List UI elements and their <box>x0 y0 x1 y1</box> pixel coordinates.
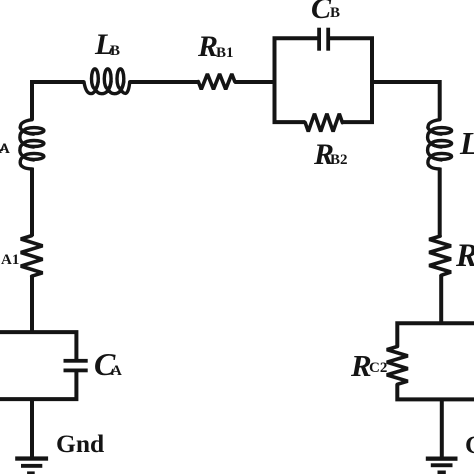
label Gnd (left) <box>56 431 104 457</box>
capacitor C_A <box>64 359 88 372</box>
label R_C1 (cropped) <box>456 240 474 273</box>
wire: parallel RC loop, right half from C_B right plate <box>330 38 372 122</box>
label C_B subscript <box>330 6 340 21</box>
label R_C2 subscript <box>369 361 387 376</box>
resistor R_B1 <box>198 74 235 89</box>
label Gnd (right, cropped) <box>465 433 474 458</box>
label R_A1 subscript (cropped) <box>1 253 19 268</box>
wire: collector box top edge (cropped at right) <box>397 323 474 346</box>
wire: base node top-left corner <box>32 82 84 120</box>
wire: collector box bottom edge (cropped at right) <box>397 384 474 399</box>
label L_C (cropped) <box>460 128 474 160</box>
label L_A (cropped) <box>0 127 5 157</box>
label L_B <box>95 30 113 60</box>
resistor R_A1 <box>21 236 43 277</box>
label R_B1 <box>198 32 218 62</box>
wire: between R_C1 and collector box <box>439 275 443 323</box>
inductor L_A <box>20 120 44 169</box>
wire: L_B to R_B1 <box>129 80 198 84</box>
wire: collector box to ground <box>440 399 444 457</box>
wire: between L_C and R_C1 <box>438 168 442 237</box>
wire: between L_A and R_A1 <box>30 168 34 236</box>
resistor R_B2 <box>305 114 342 132</box>
label C_A subscript <box>111 364 122 379</box>
resistor R_C2 <box>387 347 408 385</box>
wire: R_B1 to parallel RC box <box>234 80 274 84</box>
capacitor C_B <box>317 28 330 51</box>
label C_A <box>94 348 115 380</box>
label R_C2 <box>351 350 372 381</box>
resistor R_C1 <box>429 236 451 275</box>
label L_A subscript (cropped) <box>0 142 10 157</box>
label L_B subscript <box>110 44 120 59</box>
label R_B1 subscript <box>216 46 234 61</box>
label R_B2 subscript <box>330 153 348 168</box>
ground (left, emitter) <box>15 456 48 474</box>
label C_B <box>311 0 331 24</box>
wire: parallel RC loop, left half up to C_B left plate <box>275 38 318 122</box>
inductor L_C <box>428 120 452 169</box>
wire: emitter box top edge (cropped at left) <box>0 332 76 361</box>
label R_B2 <box>314 140 334 170</box>
wire: parallel RC box to top-right corner down to L_C <box>372 82 440 120</box>
inductor L_B <box>84 69 130 94</box>
wire: between R_A1 and emitter box <box>30 276 34 332</box>
wire: emitter box to ground <box>30 399 34 457</box>
wire: emitter box bottom edge (cropped at left) <box>0 371 76 400</box>
ground (right, collector) <box>426 457 458 474</box>
